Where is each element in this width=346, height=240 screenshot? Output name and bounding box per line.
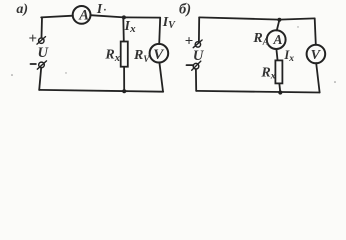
svg-text:а): а): [16, 2, 28, 17]
svg-text:V: V: [311, 48, 322, 63]
wire: junction down to resistor Rx (circuit a): [122, 18, 125, 41]
svg-text:+: +: [28, 31, 37, 47]
label + (circuit b): [185, 34, 194, 50]
speck: [65, 72, 66, 73]
wire: ammeter to resistor Rx (circuit b): [276, 49, 277, 60]
node: junction dot top (circuit b): [277, 18, 281, 22]
wire: circuit a left lower vertical: [39, 68, 41, 90]
label Rx (circuit b): [260, 65, 275, 81]
svg-text:+: +: [185, 34, 194, 50]
svg-text:RA: RA: [252, 31, 268, 47]
wire: voltmeter to bottom corner (circuit a): [159, 63, 163, 92]
resistor Rx (circuit a): [121, 42, 128, 67]
terminal - (circuit b): [193, 63, 199, 69]
wire: circuit a top-left vertical: [41, 17, 44, 37]
label Rv (circuit a): [133, 48, 150, 64]
wire: junction to ammeter (circuit b): [277, 20, 280, 31]
voltmeter PV (circuit a): [150, 44, 169, 63]
voltage label U (circuit b): [193, 48, 205, 64]
label b): [179, 1, 191, 17]
current label Iv (circuit a): [162, 15, 176, 31]
label - (circuit a): [31, 63, 36, 65]
wire: voltmeter to bottom corner (circuit b): [316, 63, 319, 92]
node: junction dot top (circuit a): [122, 15, 126, 19]
wire: circuit b bottom: [196, 91, 320, 93]
speck: [11, 74, 13, 76]
wire: circuit b top-left vertical: [198, 17, 200, 40]
node: junction dot bottom (circuit b): [278, 90, 282, 94]
wire: circuit b left lower vertical: [195, 69, 197, 91]
voltmeter PV (circuit b): [307, 45, 326, 64]
node: junction dot bottom (circuit a): [122, 89, 126, 93]
svg-text:Rx: Rx: [260, 65, 275, 81]
current label Ix (circuit b): [283, 48, 294, 64]
label + (circuit a): [28, 31, 37, 47]
resistor Rx (circuit b): [275, 60, 282, 83]
ammeter PA (circuit a): [73, 6, 91, 24]
speck: [334, 81, 336, 83]
terminal - (circuit a): [39, 62, 45, 68]
speck after I: [104, 9, 106, 11]
wire: circuit a right, corner to voltmeter: [159, 18, 160, 44]
svg-text:IV: IV: [162, 15, 176, 31]
current label Ix (circuit a): [124, 18, 137, 35]
wire: circuit a top, corner to ammeter: [41, 16, 73, 18]
terminal + (circuit b): [195, 42, 200, 47]
wire: resistor Rx to bottom (circuit a): [123, 68, 125, 92]
label Rx (circuit a): [104, 47, 120, 64]
svg-text:U: U: [193, 48, 205, 64]
wire: circuit a top, junction to right corner: [124, 16, 160, 18]
svg-text:б): б): [179, 1, 191, 17]
ammeter PA (circuit b): [267, 30, 286, 49]
wire: resistor Rx to bottom junction (circuit b): [278, 84, 281, 92]
voltage label U (circuit a): [38, 45, 50, 61]
svg-text:A: A: [78, 8, 89, 24]
svg-text:A: A: [273, 32, 283, 47]
label Ra (circuit b): [252, 31, 268, 47]
svg-text:Ix: Ix: [124, 18, 137, 35]
svg-text:U: U: [38, 45, 50, 61]
wire: circuit a top, ammeter to junction: [91, 15, 124, 17]
svg-text:Ix: Ix: [283, 48, 294, 64]
svg-text:Rx: Rx: [104, 47, 120, 64]
terminal + (circuit a): [39, 38, 44, 43]
wire: circuit b top: [199, 17, 315, 19]
current label I: [96, 1, 103, 16]
label a): [16, 2, 28, 17]
svg-text:RV: RV: [133, 48, 150, 64]
wire: circuit a bottom: [39, 90, 163, 92]
label - (circuit b): [187, 64, 194, 66]
svg-text:I: I: [96, 1, 103, 16]
wire: circuit b right, corner to voltmeter: [315, 18, 316, 44]
speck: [297, 26, 298, 27]
